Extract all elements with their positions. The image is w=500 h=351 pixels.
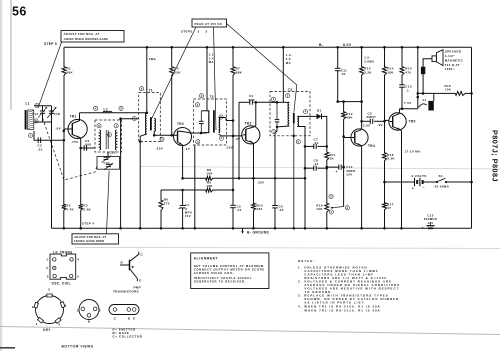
capacitor inside T3 [275,102,280,127]
svg-text:2: 2 [206,30,208,34]
label .35V TR3 [257,180,265,184]
label C5 .01 [237,204,242,212]
label pin 2 [46,266,48,270]
IF pin circle 2 slug [53,266,56,269]
label pin 4 [77,258,79,262]
svg-text:4: 4 [65,303,67,307]
svg-text:.25V: .25V [226,145,234,149]
node wiper at C14 [342,166,345,169]
TR2 emitter lead [178,142,183,180]
svg-text:.75V: .75V [71,140,79,144]
label J1 [422,98,426,102]
wire T2 secondary bottom to TR3 base [219,134,244,136]
node TR1 emitter junction [79,147,82,150]
wire TR4 collector [361,102,363,122]
junction on B- bus x=233 [232,46,235,49]
TR5 collector lead [393,109,400,117]
potentiometer R19 [325,202,329,214]
label .3V TR3 [235,137,241,141]
L2 winding right [115,130,116,150]
junction on ground bus x=361.6 [360,227,363,230]
pin 5 of T2 [219,115,223,119]
wire C10 stub [430,223,432,226]
alignment text [194,257,265,284]
label C1A [32,112,38,116]
label C13 .1 [405,85,412,93]
T3 core [293,113,295,124]
resistor R6 [159,199,163,212]
junction on ground bus x=80.7 [79,227,82,230]
wire bus to R14 [384,47,386,65]
wire R17 to ground [384,211,386,228]
junction on ground bus x=253.5 [252,227,255,230]
svg-text:8.0V: 8.0V [343,43,352,47]
capacitor C7 [314,144,316,149]
wire R1 rail to R2 [63,140,65,203]
label R9 18K [206,180,213,188]
label 25-26MA [435,184,450,188]
notes text block [298,259,400,313]
label B round [88,319,91,323]
svg-text:3: 3 [48,288,50,292]
label TR5 [409,120,416,124]
transistor TR3 [242,126,260,144]
node R8 at TR3 emitter [252,177,255,180]
svg-text:270: 270 [164,201,170,205]
svg-text:9 VOLTS: 9 VOLTS [412,174,427,178]
junction on B- bus x=147 [146,46,149,49]
node R13 bottom [360,100,363,103]
junction on ground bus x=401.5 [400,227,403,230]
svg-text:.6V: .6V [56,127,62,131]
svg-text:STEPS: STEPS [181,30,193,34]
T3 primary winding [277,102,289,127]
resistor R7 [231,66,235,77]
svg-text:ADJUST FOR MAX. AT: ADJUST FOR MAX. AT [64,32,100,36]
label R16 150 [445,84,452,92]
node R12 base junction [342,135,345,138]
svg-text:3MFD: 3MFD [367,115,376,119]
wire switch to right rail [446,181,472,183]
capacitor C13 [399,85,405,87]
TR2 collector lead [178,131,194,133]
wire T2 pin3 to ground [194,145,196,228]
svg-text:3-1/2": 3-1/2" [445,54,455,58]
label TR1 [70,115,77,119]
label R2 4.7K [66,204,74,212]
label R10 330 [257,203,264,211]
junction on ground bus x=326.8 [326,227,329,230]
label D1 [317,108,322,112]
label C9 3MFD [367,111,376,119]
svg-text:GENERATOR TO RECEIVER.: GENERATOR TO RECEIVER. [194,280,246,284]
pin 4 of T3 [303,110,307,114]
label 5MA [149,57,157,61]
svg-text:TRANSISTORS: TRANSISTORS [113,290,139,294]
capacitor C10 [422,226,435,230]
pin 1 of T3 [271,97,275,101]
wire TR1 emitter to L2 box [81,147,95,149]
TR1 collector lead [72,113,79,124]
label STEPS 3 2 [181,30,208,34]
label key 1 [36,322,38,326]
key notch 1 [38,317,44,323]
wire R7 rail to C5 [232,190,234,205]
svg-text:.01: .01 [237,208,242,212]
pin 3 of L1 [28,133,32,137]
svg-text:ACROSS VOICE COIL.: ACROSS VOICE COIL. [194,271,235,275]
gang section box C1C C1D [97,156,119,169]
transistor case round [79,300,99,320]
label C2 [38,144,43,152]
wire L2 to gang box [107,152,109,156]
junction on B- bus x=417.8 [417,46,420,49]
junction on B- bus x=361.6 [360,46,363,49]
junction on B- bus x=283.3 [282,46,285,49]
wire TR5 base [385,119,390,121]
PNP transistor symbol [120,252,139,281]
svg-text:B- GROUND: B- GROUND [247,231,269,235]
svg-text:TR4: TR4 [368,144,375,148]
svg-text:.4V: .4V [185,147,191,151]
label R12 68K [346,112,353,120]
svg-text:TR5: TR5 [409,120,416,124]
transistor TR2 [174,128,192,146]
label R18 3.3K [387,153,395,161]
pin 1 of T2 [195,103,199,107]
wire C8 row [305,167,327,169]
pin 2 of L2 [119,106,123,110]
T2 primary winding [201,111,209,133]
svg-text:MA: MA [286,61,292,65]
junction on B- bus x=384.5 [383,46,386,49]
svg-text:J1: J1 [422,98,426,102]
gang dashed link [43,118,98,180]
capacitor C9 6PF [250,100,253,105]
svg-text:10K: 10K [206,172,213,176]
label R19 10K [316,203,323,211]
svg-text:C= COLLECTOR: C= COLLECTOR [113,335,143,339]
TR3 collector lead [246,102,256,129]
label T1 [149,89,153,93]
node R7 base junction [232,135,235,138]
svg-text:E: E [99,308,101,312]
wire bus to R7 [232,47,234,65]
node R9 left [181,189,184,192]
capacitor C4 [178,206,185,211]
wire R16 row [418,92,472,94]
pin 3 of T3 [272,130,276,134]
label 7.5V [404,101,412,105]
wire R7 down to AGC [232,77,234,191]
wire B- top bus [64,46,472,48]
svg-text:.01: .01 [341,72,346,76]
pointer line to T3 slug [227,24,297,112]
label .6V [56,127,62,131]
svg-text:17-19 MA: 17-19 MA [405,149,421,153]
junction on ground bus x=161 [160,227,163,230]
wire bus to R13 [361,47,363,65]
label .4V TR2 [185,147,191,151]
wire C9 row [362,120,385,122]
label 1.5-3.6MA [364,56,375,64]
earphone jack J1 [419,101,434,111]
T1 core [150,117,152,130]
svg-text:B-: B- [319,43,323,47]
TR4 emitter lead [355,143,362,229]
IF pin circle 5 [70,274,73,277]
svg-text:.35V: .35V [156,146,164,150]
svg-text:.01: .01 [314,162,319,166]
wire TR5 collector run [400,108,418,110]
wire ground bus [52,227,472,229]
svg-text:.01: .01 [38,148,43,152]
svg-text:56K: 56K [67,71,74,75]
oscillator coil L2 box [95,120,122,152]
label C8 .01 [314,158,319,166]
svg-text:510 Ω AT: 510 Ω AT [445,63,460,67]
wire speaker rail [417,47,419,109]
wire C13 down [401,87,403,109]
wire R10 to ground [253,212,255,229]
svg-text:E: E [139,278,141,282]
svg-text:2.2K: 2.2K [83,208,91,212]
capacitor C11 [335,68,341,70]
TR4 collector lead inner [355,130,361,132]
capacitor inside T2 [199,111,204,133]
transistor TR5 [389,113,406,130]
wire T2 primary bottom [194,132,208,134]
transistor TR4 [344,129,369,146]
node speaker rail lower [417,96,420,99]
svg-text:3: 3 [47,274,49,278]
wire bus corner to R1 [63,47,65,65]
label key 2 [32,305,34,309]
svg-text:15K: 15K [174,71,181,75]
svg-text:15V: 15V [185,214,191,218]
pin 3 of T2 [196,140,200,144]
junction on ground bus x=293.8 [293,227,296,230]
svg-text:+: + [336,170,338,174]
svg-text:1K: 1K [330,157,335,161]
speaker SP1 [432,50,443,66]
svg-text:1: 1 [36,322,38,326]
label 3.0V [363,123,371,127]
antenna coil L1 rod [25,110,34,130]
label 8.0V [343,43,352,47]
wire bus to C11 [337,47,339,68]
wire T3 pin3 to C6 rail [275,127,277,178]
label pin 5 [77,274,79,278]
svg-text:2.2K: 2.2K [364,71,372,75]
transformer T2 box [194,99,227,145]
wire battery to R17 [384,182,386,202]
label C3 .008 [84,139,91,147]
callout box PEAK AT 455 KC [192,19,227,27]
label STEP 5 [44,42,57,46]
junction on ground bus x=140.2 [139,227,142,230]
node R9 right [232,189,235,192]
label R7 68K [236,67,243,75]
label C round [77,308,80,312]
wire voice coil up [423,59,432,67]
key notch 4 [60,302,65,308]
label L1 [26,102,30,106]
resistor R13 [360,66,364,77]
wire R11 to pot [326,168,328,202]
svg-text:STEP 5: STEP 5 [44,42,57,46]
svg-text:C1C: C1C [110,151,117,155]
wire collector into TR4 [361,121,363,129]
label PNP [134,285,141,289]
wire battery to switch [423,181,436,183]
svg-text:25-26MA: 25-26MA [435,184,450,188]
page crease line center [140,167,500,170]
transformer T1 box [139,93,161,142]
svg-text:.9V: .9V [377,123,383,127]
resistor R12 [342,111,346,121]
transistor case oval [109,305,139,315]
wire L1 mid tap [34,121,52,123]
label R13 2.2K [364,67,372,75]
node TR1 base [63,130,66,133]
label pin 1 [46,258,48,262]
svg-text:TR2: TR2 [177,122,184,126]
L2 winding left [100,130,101,150]
resistor R17 [383,202,387,212]
svg-text:1400KC WHILE ROCKING GANG: 1400KC WHILE ROCKING GANG [64,37,109,41]
label R11 1K [330,153,336,161]
page edge strip [0,0,2,351]
label C oval [114,316,117,320]
pin 2 of T2 [199,94,203,98]
wire C6 to ground [274,208,276,228]
svg-text:.008: .008 [84,143,91,147]
junction on ground bus x=194.8 [194,227,197,230]
wire C7 row [305,145,327,147]
node base rail dot [63,139,66,142]
label C4 3MFD 15V [185,203,192,218]
IF pin circle 3 [53,274,56,277]
page number 56 [12,5,27,19]
capacitor C1C [102,156,112,163]
node C8 right [326,167,329,170]
node T3 core ground [293,135,296,138]
wire R6 to ground [160,212,162,229]
svg-text:6PF: 6PF [249,98,255,102]
svg-text:3.6MA: 3.6MA [364,59,375,63]
wire R6 top [160,190,162,199]
node T1 secondary bottom [153,134,156,137]
wire bus to R15 [401,47,403,65]
IF pin circle 1 [53,258,56,261]
label R17 47 [387,202,394,210]
label E oval [133,316,135,320]
ground symbol B- GROUND [241,228,269,234]
wire rail to ground x121 [120,119,122,229]
resistor R14 [383,66,387,77]
svg-text:NOTES:: NOTES: [298,259,315,263]
capacitor C9 coupling [370,119,372,124]
label R6 270 [164,198,170,206]
pin 2 of L1 [35,103,39,107]
wire TR5 base to R18 [384,121,386,151]
junction on ground bus x=120.6 [119,227,122,230]
pin 5 of L2 box [107,133,111,137]
svg-text:.3V: .3V [235,137,241,141]
pin 3 of R19 [345,206,349,210]
resistor R11 [325,151,329,162]
junction on ground bus x=233 [232,227,235,230]
transformer T3 box [270,92,310,136]
svg-text:330: 330 [257,207,263,211]
diode D1 [317,114,322,120]
svg-text:KEY: KEY [43,328,51,332]
pin 1 of R19 [329,210,333,214]
label TRANSISTORS [113,290,139,294]
pin 6 of L2 box [97,124,101,128]
label L2 [104,108,108,112]
svg-text:10K: 10K [316,207,323,211]
node speaker rail upper [417,92,420,95]
pot wiper arrow [331,206,344,208]
svg-text:C1B: C1B [54,112,60,116]
svg-text:.1: .1 [406,88,409,92]
wire C5 to ground [232,208,234,229]
page crease line bottom [0,327,500,335]
alignment box [191,253,269,289]
node R12 top [342,100,345,103]
svg-text:−: − [423,186,425,190]
speaker voice coil [421,67,425,75]
label C6 .02 [279,204,284,212]
capacitor C8 [314,166,316,171]
svg-text:15V: 15V [346,172,352,176]
key circle large [36,296,64,324]
node TR5 base junction [383,120,386,123]
svg-text:P807J; P808J: P807J; P808J [491,130,500,182]
resistor R2 [62,203,66,212]
label .25V [226,145,234,149]
node T3 primary bottom [276,126,279,129]
pointer line step4 to C1D [107,171,110,234]
node voice coil tap [422,92,425,95]
label R5 15K [174,67,181,75]
pin 2 of R19 [329,195,333,199]
L2 core [106,130,108,149]
label T3 [288,88,292,92]
transistor TR1 [64,119,87,138]
resistor R10 [252,202,256,212]
label OSC. COIL [52,282,71,286]
svg-text:5MA: 5MA [149,57,157,61]
wire T3 core to ground [293,123,295,228]
svg-text:S1: S1 [439,174,443,178]
pin 6 of L1 [34,119,38,123]
svg-text:.35V: .35V [257,180,265,184]
callout box ADJUST FOR MAX AT 1600KC [72,234,119,244]
label battery minus [423,186,425,190]
node TR3 collector junction [255,101,258,104]
svg-text:TR1: TR1 [70,115,77,119]
svg-text:BOTTOM VIEWS: BOTTOM VIEWS [62,344,94,348]
wire R8 row [183,177,305,179]
svg-text:1: 1 [46,258,48,262]
resistor R18 [383,152,387,163]
node neutralizing to R8 [238,177,241,180]
TR1 emitter lead [72,135,80,149]
wire C4 to ground [182,208,184,228]
